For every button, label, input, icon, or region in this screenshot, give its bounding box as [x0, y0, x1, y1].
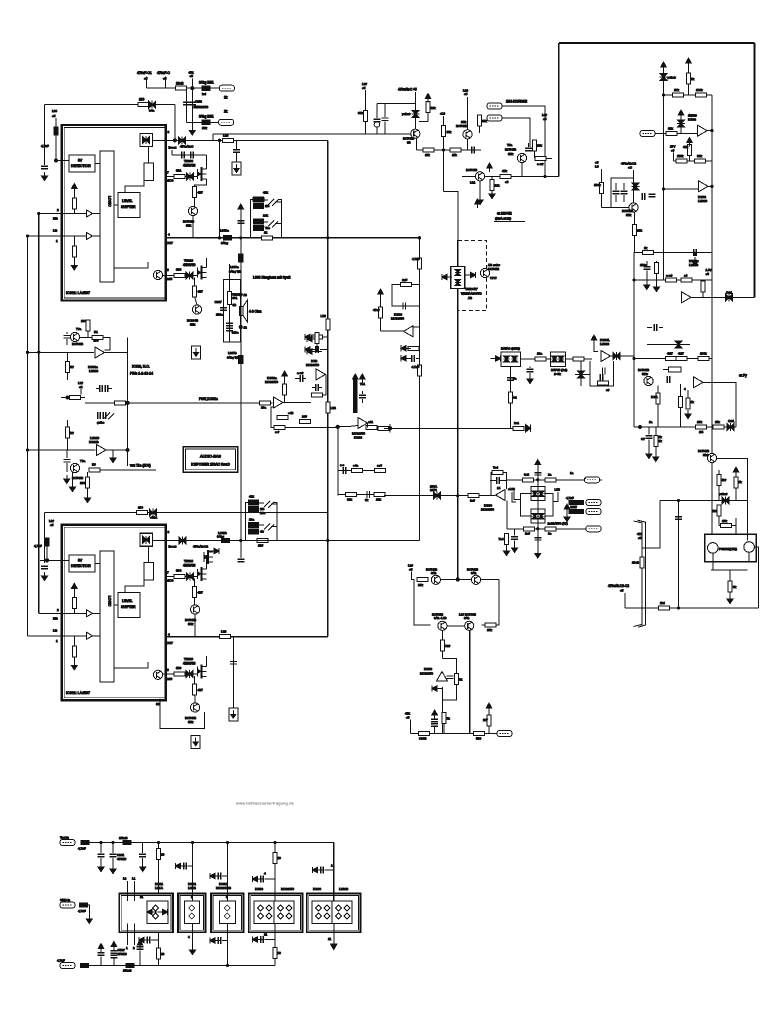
diode D101 [149, 101, 156, 113]
capacitor C202 [525, 143, 532, 151]
svg-text:L2B: L2B [221, 630, 226, 634]
capacitor Cc5 [640, 261, 650, 290]
ground [42, 572, 48, 581]
ground q203 [477, 181, 483, 205]
svg-text:a-cw: a-cw [297, 371, 304, 375]
wire fb link [585, 374, 590, 376]
resistor Rfo [401, 345, 419, 351]
buffer A2 [87, 233, 93, 240]
resistor R7a1 [373, 289, 383, 331]
wire bias rail [328, 133, 411, 135]
pin 7 [167, 171, 174, 183]
resistor R10k-2 [666, 127, 677, 136]
resistor on rail [257, 539, 268, 548]
transistor Qb1 [70, 327, 83, 346]
node j18 [418, 236, 421, 239]
svg-text:12: 12 [244, 326, 248, 330]
connector Jout1 [570, 471, 600, 483]
wire cap column b [191, 88, 193, 127]
svg-text:3Ah -L2B: 3Ah -L2B [434, 616, 447, 620]
diode Dfb2 [575, 361, 585, 386]
svg-text:L30Aa: L30Aa [230, 265, 239, 269]
resistor R3B0L [174, 666, 185, 676]
svg-text:26aB: 26aB [176, 82, 183, 86]
wire q310 [195, 297, 197, 305]
svg-text:133a: 133a [216, 313, 223, 317]
svg-text:1k: 1k [644, 246, 648, 250]
capacitor C113 [183, 100, 202, 105]
inductor Lb1 [81, 963, 89, 967]
svg-text:yellow: yellow [668, 76, 677, 80]
svg-text:LEVEL: LEVEL [122, 199, 133, 203]
diode D5 [186, 271, 193, 279]
svg-text:L1: L1 [132, 877, 136, 881]
wire q4 down thick [469, 630, 471, 733]
svg-text:470/16: 470/16 [118, 952, 128, 956]
connector Jtop [60, 836, 86, 851]
wire HI top link [39, 213, 62, 215]
svg-text:MC33079B: MC33079B [216, 886, 231, 890]
svg-text:SHIFTER: SHIFTER [121, 205, 136, 209]
wire resistor leads [228, 264, 230, 342]
svg-text:+5: +5 [52, 114, 56, 118]
node j30 [710, 185, 713, 188]
capacitor Cgl [511, 529, 518, 553]
svg-text:4B7: 4B7 [198, 191, 204, 195]
diode D2074 [430, 485, 440, 500]
capacitor Cb1 [641, 427, 652, 459]
wire mos drains low [206, 555, 208, 666]
svg-text:Ow1: Ow1 [726, 291, 733, 295]
power arrow [72, 184, 78, 193]
svg-text:Ow1: Ow1 [728, 419, 735, 423]
svg-text:BC546B: BC546B [488, 267, 499, 271]
svg-text:100k: 100k [700, 352, 707, 356]
resistor R100k-1 [696, 88, 707, 97]
inductor L102 [199, 115, 214, 125]
svg-text:5a: 5a [513, 377, 517, 381]
svg-text:2074: 2074 [430, 488, 437, 492]
feedback wires [322, 374, 326, 395]
svg-text:1k: 1k [691, 400, 695, 404]
resistor Rout3 [366, 420, 384, 429]
node L2B hook right [553, 488, 560, 502]
svg-text:470uF-C: 470uF-C [157, 71, 170, 75]
wire row427 [285, 426, 338, 428]
svg-text:IC303: IC303 [354, 436, 362, 440]
transistor Qr2 [744, 542, 755, 553]
node j14 [26, 351, 29, 354]
power arrow [238, 204, 244, 213]
svg-text:yellow: yellow [719, 492, 728, 496]
wire conn2 link [502, 118, 530, 147]
resistor R2k7 [483, 703, 492, 734]
power arrow [487, 163, 493, 172]
svg-text:????: ???? [490, 276, 497, 280]
svg-text:yellow: yellow [402, 112, 411, 116]
node +L30 [508, 487, 516, 502]
bridge box4 [254, 901, 294, 924]
wire row252 [634, 252, 713, 254]
diode arrow right [466, 272, 476, 278]
svg-text:L305: L305 [166, 277, 173, 281]
wire cmp input [655, 133, 698, 135]
power arrows pair [353, 374, 366, 383]
svg-text:(NMA 2C/D): (NMA 2C/D) [495, 217, 511, 221]
svg-text:BC546B: BC546B [456, 124, 467, 128]
capacitor C307L [230, 662, 237, 664]
wire opamp1 out [283, 402, 311, 404]
node j2 [218, 236, 221, 239]
svg-text:1k: 1k [264, 231, 268, 235]
wire boost caps [172, 150, 207, 155]
resistor Rtp1 [417, 578, 428, 588]
node j8 [543, 175, 546, 178]
svg-text:+5: +5 [406, 716, 410, 720]
svg-text:100: 100 [138, 506, 143, 510]
wire top rail long [213, 133, 411, 135]
node L2 stub [408, 564, 414, 580]
resistor Rin2 [72, 236, 76, 262]
wire feedback top [45, 512, 328, 514]
capacitor Cs2 [176, 863, 194, 900]
capacitor Cbr1 [534, 473, 541, 475]
wire q202 down [521, 163, 523, 177]
wire pin12 [156, 699, 205, 729]
resistor R3B1 [174, 169, 185, 179]
svg-text:100: 100 [80, 481, 85, 485]
resistor Rq2 [678, 384, 682, 427]
node j21 [157, 841, 160, 844]
resistor R201 [478, 115, 488, 133]
svg-text:3Ahg W1: 3Ahg W1 [227, 356, 240, 360]
svg-text:WMEAA80STD: WMEAA80STD [461, 292, 483, 296]
resistor R100b [81, 319, 90, 337]
svg-text:470uAk-C3-C2: 470uAk-C3-C2 [608, 584, 629, 588]
wire cap column a [186, 88, 188, 122]
resistor Rbox [663, 367, 681, 372]
svg-text:iu4: iu4 [202, 92, 206, 96]
wire stub [240, 541, 242, 559]
svg-text:47k: 47k [502, 169, 507, 173]
feedback loop box [392, 285, 420, 306]
wire driver out [148, 147, 150, 163]
wire bus K (x127.5) [127, 337, 129, 466]
wire bottom row [410, 733, 497, 735]
wire bottom rail [89, 965, 276, 967]
wire conn top feed [585, 478, 586, 480]
inductor L103 ferrite [41, 127, 58, 148]
wire HI input [62, 213, 100, 215]
svg-text:a-c: a-c [340, 463, 345, 467]
node j28 [456, 494, 459, 497]
capacitor C494 [365, 491, 369, 502]
capacitor CB2 [237, 559, 244, 561]
node L3? [49, 519, 54, 527]
capacitor Cbat [527, 367, 534, 384]
resistor RA2 [509, 392, 518, 403]
wire coil row [660, 500, 748, 502]
resistor R1a [545, 473, 556, 482]
node 47k stub [405, 712, 410, 734]
node L30 +5 [52, 109, 57, 127]
resistor Rd1 [156, 843, 164, 894]
capacitor Cs4 [253, 872, 276, 883]
resistor Rd2 [156, 932, 164, 965]
wire frame top [559, 42, 755, 44]
svg-text:10: 10 [278, 856, 282, 860]
svg-text:TR306: TR306 [184, 159, 193, 163]
resistor R470a [352, 464, 363, 473]
wire row352 [28, 351, 95, 353]
node 470uA-C2 [621, 162, 636, 184]
svg-text:TR310: TR310 [184, 259, 193, 263]
resistor Rtp2 [485, 623, 496, 632]
svg-text:a-cw: a-cw [666, 274, 673, 278]
resistor RS5 [249, 495, 259, 506]
svg-text:MC33079: MC33079 [281, 887, 294, 891]
svg-text:3Ahg: 3Ahg [217, 535, 224, 539]
diode Dz yellow [402, 104, 420, 129]
connector J102 [202, 110, 234, 131]
capacitor C307 [215, 300, 227, 317]
node junction [336, 425, 339, 428]
wire cmp4 out [703, 382, 736, 427]
wire vert2b [188, 924, 196, 955]
resistor Rh4 [89, 463, 156, 473]
resistor R100c [80, 472, 91, 503]
capacitor C150 [472, 147, 474, 154]
svg-text:2k?: 2k? [712, 509, 717, 513]
bridge box2 [185, 901, 200, 924]
resistor R7a4c [499, 534, 510, 556]
resistor Rr252 [643, 246, 654, 255]
wire shifter link [125, 180, 144, 192]
svg-text:Yes: Yes [265, 226, 270, 230]
wire bracket right [278, 200, 282, 238]
node j22 [191, 841, 194, 844]
svg-text:3B4: 3B4 [176, 569, 182, 573]
wire L3 stubs top [123, 877, 143, 902]
resistor R202 [533, 140, 543, 158]
node j23 [226, 841, 229, 844]
node 470uA-C3 [608, 584, 629, 608]
svg-text:C113: C113 [195, 100, 202, 104]
wire row428 to diode [384, 427, 523, 429]
capacitor Cfb4 [600, 374, 602, 381]
svg-text:8k: 8k [659, 439, 663, 443]
ground arrow [727, 595, 733, 604]
resistor R11kB [450, 148, 461, 157]
svg-text:BC546B: BC546B [505, 148, 516, 152]
resistor R30k [358, 82, 367, 134]
wire y176 [462, 176, 559, 178]
wire LI input [62, 235, 100, 237]
svg-text:+2: +2 [79, 385, 83, 389]
resistor R41k [683, 138, 692, 162]
wire mos2 drain [206, 258, 208, 268]
svg-text:3Ah: 3Ah [464, 616, 470, 620]
diode Dfb [611, 352, 635, 360]
capacitor Cr252 [692, 249, 698, 266]
wire row495 main [384, 495, 470, 497]
transistor Q206 [698, 449, 717, 463]
svg-text:3Bk: 3Bk [186, 224, 192, 228]
ground [489, 190, 495, 199]
bridge BATAS box1 [501, 347, 521, 367]
node LI3 labels [53, 229, 58, 644]
svg-text:R1: R1 [94, 330, 98, 334]
svg-text:14k: 14k [263, 214, 268, 218]
svg-text:10: 10 [278, 951, 282, 955]
transistor TR310 mosfet [183, 259, 207, 280]
svg-text:11k: 11k [715, 420, 720, 424]
speaker box [223, 280, 240, 343]
connector J1N4 a [487, 100, 527, 110]
transistor Qp1 [426, 568, 441, 585]
resistor R2a1 [513, 421, 524, 430]
wire vert3 [227, 843, 229, 902]
svg-text:7a4: 7a4 [493, 466, 498, 470]
svg-text:www.tiefbassuebertragung.de: www.tiefbassuebertragung.de [236, 801, 295, 806]
resistor RC1 [321, 314, 330, 330]
svg-text:5k: 5k [733, 585, 737, 589]
wire logic out [114, 262, 148, 268]
resistor Rh3 [112, 401, 128, 405]
op-amp IC302a-m [265, 376, 283, 408]
node j24 [273, 841, 276, 844]
wire bat out [565, 358, 592, 360]
wire row427b [338, 426, 349, 428]
svg-text:L3: L3 [123, 877, 127, 881]
node +5 LS [595, 161, 602, 183]
capacitor Cfb2 [497, 477, 499, 484]
wire pin5L [163, 673, 198, 675]
resistor RS6 [249, 507, 266, 516]
resistor Rb1 [696, 420, 707, 434]
feedback loop [491, 472, 507, 495]
resistor RS8 [249, 529, 265, 534]
capacitor Cmid [647, 324, 663, 331]
svg-text:10k: 10k [722, 519, 727, 523]
resistor Rq3 [685, 390, 694, 419]
svg-text:A3?: A3? [445, 644, 451, 648]
svg-text:LOGIC: LOGIC [108, 196, 112, 207]
node j4 [326, 236, 329, 239]
wire vert4b [274, 924, 276, 966]
node boost [169, 145, 195, 150]
svg-text:BC546B: BC546B [72, 476, 83, 480]
node j7 [442, 148, 445, 151]
svg-text:+4a: +4a [353, 464, 358, 468]
svg-text:"TRIDON": "TRIDON" [464, 287, 478, 291]
svg-text:1N5919/63: 1N5919/63 [194, 105, 209, 109]
diode arrow [432, 685, 442, 691]
IC box 4 [249, 887, 303, 932]
node junction k [126, 401, 129, 404]
bridge BATAS box2 [550, 352, 567, 376]
connector Jcmp [640, 131, 655, 137]
resistor Rout1 [262, 231, 273, 240]
resistor Rfb3 [597, 381, 609, 392]
inductor L30Aa [229, 254, 243, 274]
wire mid links [264, 200, 282, 224]
svg-text:3Bk: 3Bk [508, 152, 514, 156]
bridge BAT54 b [531, 509, 568, 525]
svg-text:10k: 10k [668, 127, 673, 131]
svg-text:MC33079: MC33079 [481, 508, 494, 512]
inductor L30Da [220, 229, 232, 246]
wire bat drop [510, 367, 512, 429]
wire bus B (x240) [240, 206, 242, 541]
wire row450 [28, 449, 96, 451]
svg-text:a+?: a+? [377, 464, 382, 468]
connector J101 [219, 85, 234, 99]
svg-text:tr4a: tr4a [149, 109, 155, 113]
transistor Q306 [183, 206, 198, 227]
svg-text:470uAk-C: 470uAk-C [180, 145, 194, 149]
resistor R5B [474, 732, 485, 741]
resistor R102 [138, 98, 149, 107]
resistor R7a4 [401, 278, 412, 287]
svg-text:10k: 10k [431, 106, 436, 110]
svg-text:11: 11 [328, 937, 331, 941]
svg-text:LM339: LM339 [698, 199, 708, 203]
ground [64, 475, 70, 484]
svg-text:10k: 10k [418, 583, 423, 587]
wire bus G (x634) [633, 253, 635, 428]
wire relay right [754, 547, 758, 608]
svg-text:3B: 3B [233, 303, 237, 307]
svg-text:L30Da: L30Da [220, 229, 229, 233]
IC box 3 [211, 882, 244, 932]
node junction p8 [173, 139, 176, 142]
5V detection block [69, 155, 95, 172]
capacitor stack [431, 710, 438, 734]
svg-text:LI3: LI3 [53, 229, 58, 233]
svg-text:1a: 1a [649, 420, 653, 424]
svg-text:IC?A: IC?A [651, 395, 658, 399]
wire OUT rail [166, 237, 420, 239]
svg-text:R?: R? [92, 463, 96, 467]
resistor Rd5 [273, 948, 281, 959]
svg-text:10k: 10k [697, 420, 702, 424]
IC box 1 [119, 882, 173, 932]
svg-text:1uF: 1uF [402, 278, 407, 282]
resistor R4B7La [193, 579, 203, 598]
wire row402 [85, 402, 273, 404]
svg-text:BC546B: BC546B [72, 342, 83, 346]
svg-text:12: 12 [156, 702, 160, 706]
svg-text:10k: 10k [376, 498, 381, 502]
svg-text:PINs 1-2-13-14: PINs 1-2-13-14 [130, 372, 153, 376]
inductor L101 [199, 81, 214, 97]
wire conn link [502, 106, 545, 177]
node L2 stub [78, 381, 83, 395]
svg-text:4B7: 4B7 [198, 591, 204, 595]
svg-text:3Bk: 3Bk [461, 120, 467, 124]
resistor R4M7a [666, 352, 677, 361]
svg-text:IC301: LA4597: IC301: LA4597 [66, 291, 90, 295]
svg-text:1N4-DIYARGE: 1N4-DIYARGE [506, 100, 527, 104]
svg-text:LS: LS [595, 165, 599, 169]
wire logic-shifter [114, 204, 118, 206]
diode Dout [726, 291, 733, 302]
node j19 [677, 499, 680, 502]
transistor Q200 [403, 129, 420, 144]
svg-text:+5: +5 [706, 272, 710, 276]
svg-text:10k: 10k [674, 88, 679, 92]
